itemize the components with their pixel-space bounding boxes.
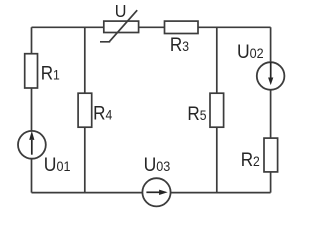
- svg-text:U: U: [115, 1, 127, 21]
- svg-text:R4: R4: [93, 103, 112, 124]
- source U03 circle: [142, 178, 170, 206]
- resistor R5: [210, 93, 224, 127]
- varistor U body: [104, 21, 139, 32]
- svg-text:R2: R2: [241, 149, 260, 170]
- resistor R1: [25, 54, 38, 88]
- wire left branch: [31, 27, 33, 192]
- arrow U01 up: [31, 140, 33, 155]
- svg-text:R5: R5: [187, 103, 206, 124]
- wire R5 branch: [216, 27, 218, 192]
- arrow U03 right: [146, 191, 159, 193]
- source U01 circle: [18, 131, 46, 159]
- resistor R3: [165, 21, 199, 33]
- resistor R2: [264, 138, 278, 172]
- svg-text:R3: R3: [170, 34, 189, 55]
- svg-text:U03: U03: [144, 153, 171, 175]
- wire top: [32, 26, 271, 28]
- svg-text:U01: U01: [44, 153, 71, 175]
- svg-text:R1: R1: [41, 62, 60, 83]
- wire bottom: [32, 192, 271, 194]
- svg-text:U02: U02: [237, 40, 264, 62]
- resistor R4: [78, 93, 92, 127]
- varistor U diagonal stroke: [100, 10, 137, 42]
- wire right branch: [270, 27, 272, 192]
- arrow U02 down: [270, 62, 272, 78]
- wire R4 branch: [84, 27, 86, 192]
- source U02 circle: [257, 62, 285, 90]
